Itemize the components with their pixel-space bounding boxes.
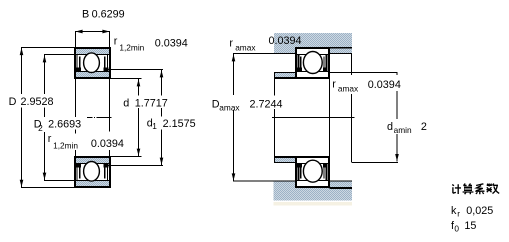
label d1 2.1575 bbox=[147, 117, 196, 130]
bearing lower section inner ring blue band bbox=[76, 158, 109, 163]
bearing lower section ball bbox=[84, 162, 100, 182]
dimension D2 extension lines bbox=[44, 55, 74, 181]
dimension B extension lines bbox=[76, 32, 110, 48]
svg-text:0: 0 bbox=[454, 223, 459, 233]
dimension d1 line bbox=[160, 70, 164, 166]
label r 1,2min 0.0394 (top) bbox=[114, 36, 188, 53]
bearing lower section outer ring blue band bbox=[76, 181, 109, 186]
D_a shoulder line bottom (extension of D_amax) bbox=[233, 180, 295, 182]
label r 1,2min 0.0394 (bottom) bbox=[48, 133, 124, 151]
centerline dash-dot bbox=[87, 117, 112, 119]
label D_amax 2.7244 bbox=[212, 98, 283, 112]
svg-text:1,2min: 1,2min bbox=[53, 140, 78, 150]
bearing lower section groove boundary lines bbox=[76, 163, 109, 164]
svg-text:1: 1 bbox=[152, 121, 157, 131]
svg-text:2.7244: 2.7244 bbox=[250, 98, 283, 110]
bearing upper section frame bbox=[74, 47, 111, 79]
bearing right face line / r leader (gap at r text) bbox=[109, 79, 111, 156]
svg-text:0.0394: 0.0394 bbox=[368, 79, 401, 91]
bearing upper section seal right bbox=[104, 55, 109, 71]
shaft shoulder bottom-left bbox=[274, 156, 295, 163]
dimension B line with arrows bbox=[75, 30, 110, 34]
right bearing lower section bbox=[295, 156, 330, 188]
bearing upper section ball bbox=[84, 53, 100, 73]
label d_amin 2 bbox=[387, 121, 427, 135]
dimension d_amin line bbox=[395, 73, 399, 162]
axis line bbox=[272, 117, 354, 119]
hanzi ji bbox=[452, 184, 461, 194]
bearing lower section seal left bbox=[76, 164, 81, 180]
svg-text:amin: amin bbox=[394, 125, 412, 135]
label k_r 0,025 bbox=[451, 205, 493, 219]
bearing upper section seal left bbox=[76, 55, 81, 71]
svg-text:r: r bbox=[457, 208, 460, 218]
dimension d line bbox=[137, 79, 141, 157]
label f_0 15 bbox=[451, 220, 476, 233]
right bearing upper section bbox=[295, 47, 330, 79]
hanzi shu bbox=[486, 184, 499, 194]
shaft shoulder face line (gap at 2.7244 text) bbox=[274, 73, 276, 164]
svg-text:r: r bbox=[332, 79, 336, 91]
dimension D_amax line bbox=[232, 54, 236, 182]
svg-text:15: 15 bbox=[464, 220, 476, 232]
d_a top extension line bbox=[330, 72, 398, 74]
housing bore line top right of bearing bbox=[330, 47, 353, 49]
svg-text:amax: amax bbox=[338, 84, 359, 94]
d_a bottom extension line bbox=[352, 162, 399, 164]
svg-text:B: B bbox=[82, 8, 89, 20]
housing block top bbox=[274, 33, 352, 54]
svg-text:d: d bbox=[123, 97, 129, 109]
bearing lower section seal right bbox=[104, 164, 109, 180]
svg-text:d: d bbox=[387, 121, 393, 133]
dimension D extension lines bbox=[21, 48, 74, 188]
svg-text:r: r bbox=[229, 37, 233, 49]
svg-text:2.9528: 2.9528 bbox=[21, 96, 54, 108]
bearing upper section outer ring blue band bbox=[76, 49, 109, 54]
label D2 2.6693 bbox=[34, 119, 81, 133]
svg-text:0.0394: 0.0394 bbox=[155, 38, 188, 50]
dimension d1 extension lines bbox=[107, 70, 163, 166]
housing bore line bottom right bbox=[330, 187, 353, 189]
bearing lower section frame bbox=[74, 156, 111, 188]
svg-text:r: r bbox=[48, 133, 52, 145]
bearing upper section inner ring blue band bbox=[76, 72, 109, 77]
svg-text:r: r bbox=[114, 36, 118, 48]
label r_amax 0.0394 (top) bbox=[229, 35, 301, 53]
hanzi suan bbox=[463, 184, 474, 195]
svg-text:0.0394: 0.0394 bbox=[269, 35, 302, 47]
svg-text:2.6693: 2.6693 bbox=[48, 119, 81, 131]
dimension d extension lines bbox=[111, 79, 142, 157]
svg-text:D: D bbox=[9, 96, 17, 108]
housing block bottom bbox=[274, 182, 353, 201]
housing shoulder bottom edge line bbox=[330, 53, 353, 55]
housing face line (gap at r_amax label) bbox=[351, 54, 353, 76]
hanzi xi bbox=[475, 184, 484, 194]
svg-text:0,025: 0,025 bbox=[466, 205, 493, 217]
bearing left face line between sections (gaps at D2 and r texts) bbox=[75, 79, 77, 156]
svg-text:0.0394: 0.0394 bbox=[91, 138, 124, 150]
label 计算系数 (calculation factors) drawn as strokes bbox=[452, 184, 499, 195]
dimension D_amax top extension line (D_a level) bbox=[233, 53, 295, 55]
dimension D2 line bbox=[43, 55, 47, 181]
svg-text:amax: amax bbox=[235, 43, 256, 53]
svg-text:1.7717: 1.7717 bbox=[135, 97, 168, 109]
dimension D line bbox=[20, 47, 24, 188]
svg-text:1,2min: 1,2min bbox=[119, 42, 144, 52]
right bearing face line between sections bbox=[329, 79, 331, 156]
svg-text:amax: amax bbox=[219, 102, 240, 112]
hanzi suan middle box bbox=[464, 187, 472, 191]
svg-text:2.1575: 2.1575 bbox=[163, 118, 196, 130]
shaft shoulder top-left bbox=[274, 73, 295, 80]
housing bottom faint underline bbox=[274, 202, 353, 205]
label r_amax 0.0394 (middle) bbox=[332, 79, 401, 94]
svg-text:2: 2 bbox=[38, 123, 43, 133]
bearing upper section groove boundary lines bbox=[76, 54, 109, 55]
svg-text:k: k bbox=[451, 205, 457, 217]
svg-text:0.6299: 0.6299 bbox=[92, 8, 125, 20]
svg-text:2: 2 bbox=[421, 121, 427, 133]
